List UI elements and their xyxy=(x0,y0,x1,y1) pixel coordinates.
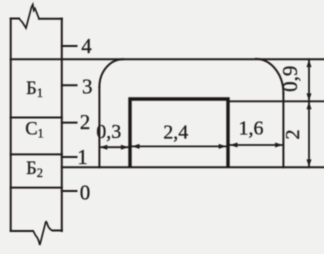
arrow 0,9 up xyxy=(307,60,312,68)
dim extension line 0,9/2 xyxy=(228,100,324,102)
scale tick 4 xyxy=(62,45,77,47)
break squiggle top xyxy=(19,5,39,29)
arrow 0,3 left xyxy=(100,145,108,150)
tunnel right wall xyxy=(282,93,284,167)
svg-text:0,9: 0,9 xyxy=(278,66,302,92)
tunnel right roof arc xyxy=(256,59,284,93)
arrow 1,6 left xyxy=(230,143,238,148)
stratum boundary 3 xyxy=(11,153,62,155)
vertical dim line 2 xyxy=(308,101,310,167)
break squiggle bottom xyxy=(33,222,53,245)
tunnel left roof arc xyxy=(99,59,123,87)
stratum boundary 2 xyxy=(11,117,62,119)
svg-text:0,3: 0,3 xyxy=(96,121,121,143)
svg-text:1,6: 1,6 xyxy=(239,118,264,140)
stratum boundary 4 xyxy=(11,187,62,189)
column top edge with break xyxy=(11,18,19,20)
scale tick 0 xyxy=(62,190,77,192)
scale tick 1 xyxy=(62,156,77,158)
scale tick 2 xyxy=(62,122,77,124)
svg-text:0: 0 xyxy=(80,181,91,205)
arrow 2,4 left xyxy=(132,144,140,149)
dim line 0,3 xyxy=(99,146,128,148)
column left edge xyxy=(10,19,12,232)
vertical dim line 0,9 xyxy=(308,59,310,101)
column bottom edge with break xyxy=(11,230,33,232)
arrow 0,9 down xyxy=(307,93,312,101)
arrow 2 down xyxy=(307,159,312,167)
svg-text:4: 4 xyxy=(81,34,92,58)
svg-text:2: 2 xyxy=(80,110,91,134)
tunnel floor long line xyxy=(62,166,324,168)
scale tick 3 xyxy=(62,84,77,86)
arrowheads xyxy=(100,60,312,167)
timber support frame (thick) xyxy=(130,99,228,167)
dim line 2,4 xyxy=(132,145,227,147)
svg-text:2: 2 xyxy=(282,129,304,139)
dim line 1,6 xyxy=(230,144,283,146)
arrow 2 up xyxy=(307,102,312,110)
arrow 0,3 right xyxy=(121,145,128,150)
arrow 2,4 right xyxy=(219,144,227,149)
arrow 1,6 right xyxy=(275,143,283,148)
column right edge xyxy=(61,19,63,232)
tunnel left wall xyxy=(98,87,100,167)
stratum boundary / tunnel roof long line xyxy=(11,58,324,60)
svg-text:3: 3 xyxy=(82,75,93,99)
svg-text:2,4: 2,4 xyxy=(163,122,188,144)
svg-text:1: 1 xyxy=(77,145,88,169)
